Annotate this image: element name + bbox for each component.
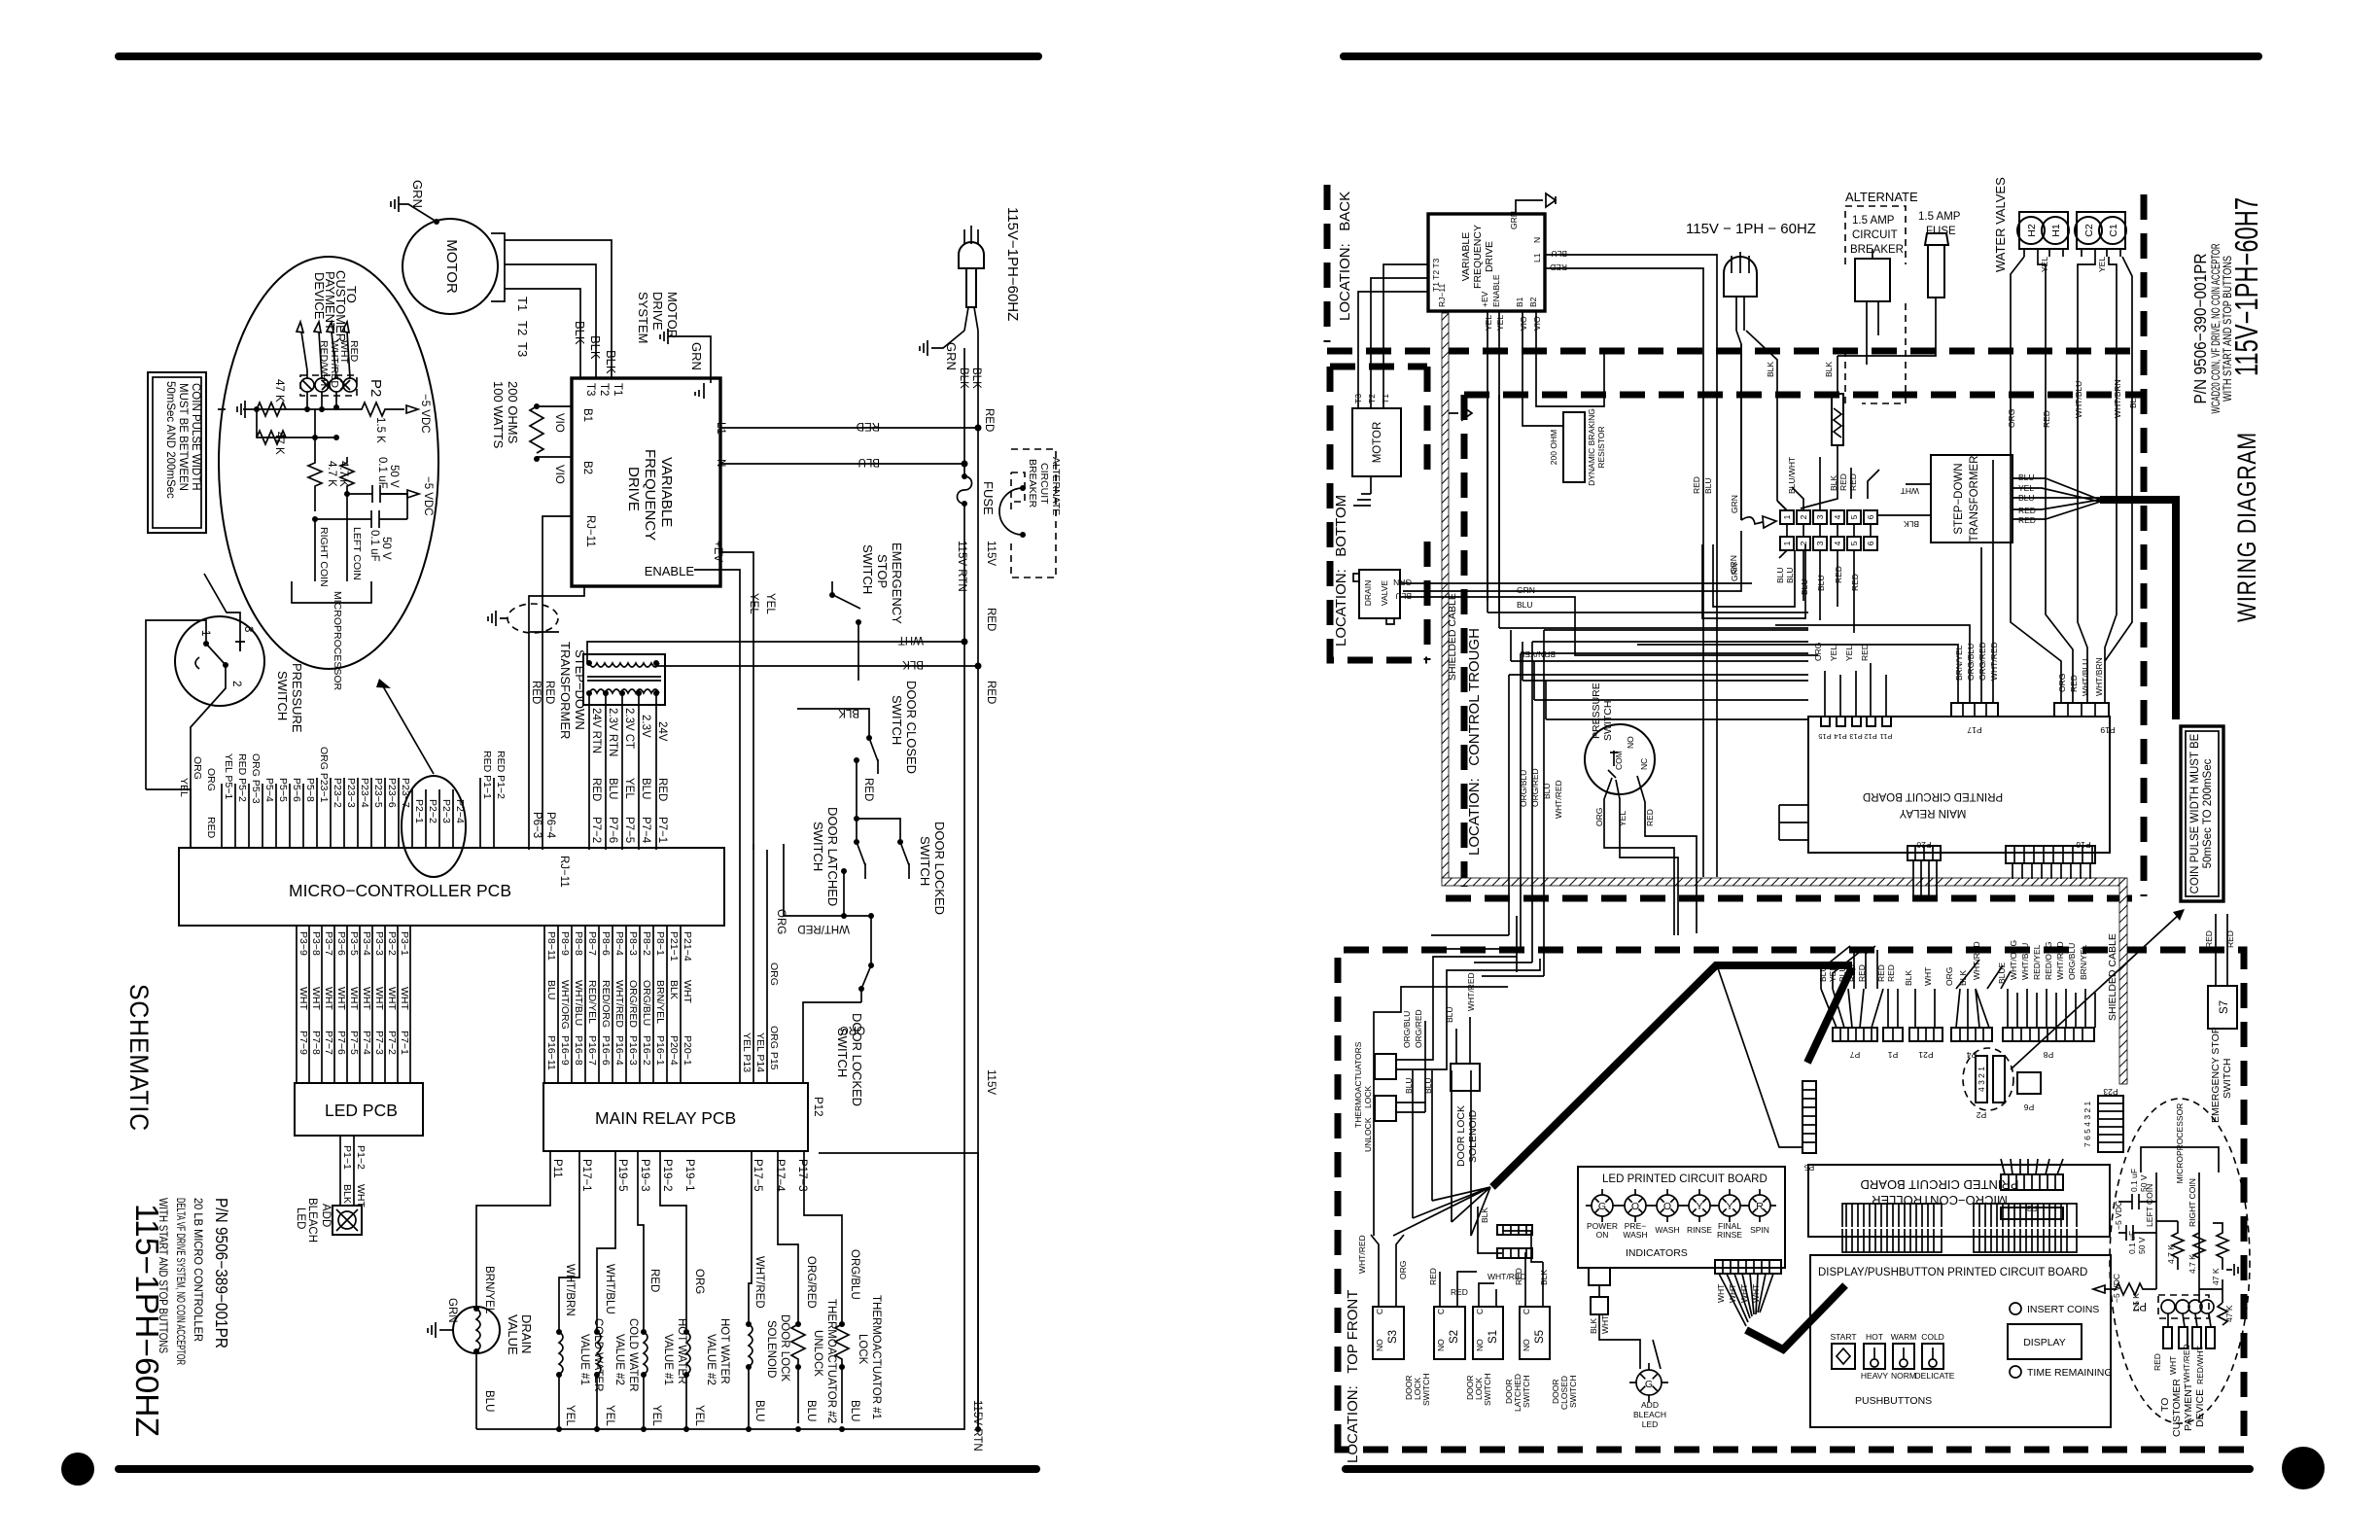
svg-text:RJ−11: RJ−11 [558, 856, 570, 888]
drain valve right page [1353, 570, 1400, 624]
svg-text:RED: RED [985, 608, 997, 631]
svg-text:P17−5: P17−5 [752, 1159, 763, 1192]
svg-text:HOT WATER: HOT WATER [718, 1318, 730, 1384]
svg-text:SCHEMATIC: SCHEMATIC [124, 984, 154, 1132]
svg-text:2.3V CT: 2.3V CT [623, 708, 635, 749]
svg-text:WHT/RED: WHT/RED [1972, 941, 1981, 980]
svg-text:BRN/YEL: BRN/YEL [1954, 645, 1964, 681]
svg-text:VIO: VIO [1532, 316, 1542, 331]
svg-text:TRANSFORMER: TRANSFORMER [558, 642, 573, 739]
svg-text:RED P1−2: RED P1−2 [495, 751, 507, 799]
svg-text:DEVICE: DEVICE [2194, 1389, 2206, 1427]
svg-text:ORG/RED: ORG/RED [627, 980, 639, 1028]
svg-text:LOCATION: BOTTOM: LOCATION: BOTTOM [1333, 495, 1349, 647]
svg-text:BLU: BLU [805, 1400, 817, 1421]
svg-text:P2−3: P2−3 [440, 799, 452, 823]
connector P20 [1907, 846, 1941, 860]
svg-text:BLK: BLK [970, 367, 982, 389]
wire bundle below micro-controller PCB to LED PCB [297, 926, 410, 1083]
svg-text:BREAKER: BREAKER [1027, 459, 1038, 508]
svg-text:RED: RED [1848, 473, 1858, 491]
svg-text:PRINTED CIRCUIT BOARD: PRINTED CIRCUIT BOARD [1863, 790, 2003, 802]
svg-text:ORG/BLU: ORG/BLU [2067, 943, 2077, 980]
svg-text:MUST BE BETWEEN: MUST BE BETWEEN [177, 383, 189, 491]
svg-text:WHT/BLU: WHT/BLU [2020, 943, 2030, 980]
wire 115V hot long vertical [977, 428, 979, 1429]
svg-text:T1: T1 [1381, 394, 1390, 403]
svg-text:SWITCH: SWITCH [275, 671, 290, 720]
svg-text:50 V: 50 V [2137, 1237, 2147, 1254]
svg-text:DEVICE: DEVICE [312, 272, 327, 320]
svg-text:4.7 K: 4.7 K [2187, 1254, 2197, 1274]
svg-text:P2: P2 [1977, 1110, 1987, 1120]
motor M [402, 219, 498, 314]
svg-text:HEAVY: HEAVY [1861, 1371, 1889, 1381]
wall back/bottom horizontal dashed [1327, 348, 2144, 355]
microprocessor bracket [292, 581, 371, 603]
svg-text:P8: P8 [2044, 1050, 2054, 1060]
svg-text:WHT/BLU: WHT/BLU [604, 1264, 615, 1314]
svg-text:YEL: YEL [604, 1405, 615, 1426]
svg-text:B2: B2 [1528, 297, 1538, 307]
svg-text:BLU: BLU [607, 778, 618, 799]
svg-text:RED: RED [2152, 1353, 2162, 1371]
svg-text:C: C [1436, 1309, 1446, 1314]
connector P8 [2003, 1028, 2094, 1041]
svg-text:BLK: BLK [1824, 362, 1834, 377]
connector row P7 P1 P21 P4 P8 [1818, 940, 2095, 1060]
svg-text:WHT/BLU: WHT/BLU [2074, 381, 2083, 418]
svg-text:HOT: HOT [1866, 1332, 1883, 1342]
svg-text:C2: C2 [2083, 224, 2095, 237]
svg-text:RED/WHT: RED/WHT [318, 340, 330, 389]
svg-text:RJ−11: RJ−11 [584, 515, 596, 547]
svg-text:RED: RED [857, 420, 880, 432]
svg-text:P23−5: P23−5 [372, 778, 384, 808]
svg-text:4: 4 [1833, 541, 1842, 545]
cable shield ground symbol [488, 604, 558, 633]
svg-text:RED: RED [1838, 473, 1848, 491]
svg-text:47 K: 47 K [273, 379, 285, 402]
wires +EV ENABLE down [1487, 311, 1499, 612]
LED add bleach [295, 1198, 362, 1242]
svg-text:WHT: WHT [898, 634, 924, 646]
svg-text:ORG/BLU: ORG/BLU [641, 980, 652, 1026]
svg-text:WHT/BLU: WHT/BLU [2081, 659, 2090, 696]
svg-text:50 V: 50 V [380, 537, 392, 560]
svg-text:DELICATE: DELICATE [1915, 1371, 1955, 1381]
dynamic braking resistor R2 [1549, 408, 1606, 486]
step-down transformer T2 right page [1876, 455, 2100, 542]
wire bundle below micro-controller PCB to main relay PCB [544, 926, 693, 1083]
svg-text:BLU: BLU [1423, 1077, 1433, 1094]
wire WHT to transformer [587, 642, 964, 663]
connector block rows 1-6 [1775, 457, 1879, 633]
door locked switch lower [775, 909, 874, 1106]
svg-text:BLU: BLU [1542, 783, 1552, 799]
svg-text:WHT: WHT [348, 987, 360, 1010]
svg-text:4.7 K: 4.7 K [326, 461, 337, 487]
svg-text:WIRING DIAGRAM: WIRING DIAGRAM [2232, 432, 2261, 622]
svg-text:STEP−DOWN: STEP−DOWN [573, 649, 587, 730]
svg-text:RED: RED [2018, 515, 2036, 525]
svg-text:RED: RED [205, 817, 217, 839]
location bottom dashed box [1330, 367, 1427, 660]
svg-text:P1−1: P1−1 [341, 1145, 353, 1170]
svg-text:TRANSFORMER: TRANSFORMER [1969, 456, 1980, 542]
svg-text:47 K: 47 K [273, 432, 285, 455]
wire N to VFD [720, 463, 964, 465]
svg-text:S3: S3 [1387, 1330, 1399, 1344]
svg-text:P8−7: P8−7 [586, 931, 598, 956]
svg-text:SWITCH: SWITCH [1483, 1373, 1492, 1406]
svg-text:WHT: WHT [335, 987, 347, 1010]
svg-text:RED: RED [985, 681, 997, 704]
svg-text:200 OHM: 200 OHM [1549, 430, 1558, 465]
svg-text:WHT: WHT [1728, 1284, 1737, 1303]
svg-text:YEL: YEL [178, 778, 190, 797]
svg-text:115V−1PH−60HZ: 115V−1PH−60HZ [1004, 207, 1021, 321]
svg-text:C: C [1475, 1309, 1485, 1314]
svg-text:115V − 1PH − 60HZ: 115V − 1PH − 60HZ [1686, 221, 1816, 237]
svg-text:115V RTN: 115V RTN [956, 541, 967, 592]
svg-text:RED: RED [1886, 964, 1896, 982]
svg-text:WHT/RED: WHT/RED [753, 1256, 765, 1309]
svg-text:BLK: BLK [604, 350, 618, 374]
svg-text:BLU: BLU [1517, 600, 1533, 610]
indicator lamp O pre-wash [1625, 1195, 1646, 1216]
svg-text:DOOR LOCKED: DOOR LOCKED [932, 822, 947, 915]
svg-text:BLK: BLK [838, 707, 859, 718]
svg-text:NC: NC [1639, 758, 1649, 770]
svg-text:5: 5 [1849, 541, 1859, 545]
svg-text:DOOR CLOSED: DOOR CLOSED [904, 681, 919, 774]
svg-text:T1: T1 [515, 297, 530, 311]
resistor 47K lower [257, 409, 286, 444]
svg-text:ADD: ADD [1641, 1400, 1659, 1410]
svg-text:FREQUENCY: FREQUENCY [642, 449, 658, 541]
svg-text:ORG: ORG [205, 768, 217, 791]
svg-text:P17: P17 [1967, 725, 1981, 735]
svg-text:BLU: BLU [1816, 575, 1826, 591]
control trough bottom dashed [1446, 895, 2144, 902]
svg-text:WASH: WASH [1655, 1225, 1679, 1235]
svg-text:DRIVE: DRIVE [1484, 241, 1495, 272]
motor terminal bracket [491, 233, 505, 301]
svg-text:3: 3 [242, 626, 254, 632]
svg-text:VALUE #1: VALUE #1 [662, 1334, 674, 1385]
hot water valve #2 coil [660, 1151, 730, 1429]
svg-text:SWITCH: SWITCH [1421, 1373, 1431, 1406]
wire BLK to transformer [656, 663, 978, 666]
svg-text:DRAIN: DRAIN [519, 1314, 534, 1353]
svg-text:P8−9: P8−9 [559, 931, 571, 956]
svg-text:P5−8: P5−8 [304, 778, 316, 802]
svg-text:DISPLAY: DISPLAY [2023, 1337, 2066, 1348]
svg-text:C: C [1375, 1309, 1384, 1314]
svg-text:SWITCH: SWITCH [1522, 1375, 1531, 1408]
micro-controller printed circuit board right page [1808, 1159, 2110, 1237]
connector P1 [1883, 1028, 1903, 1041]
svg-text:P20−1: P20−1 [682, 1035, 693, 1066]
leader arrow from ellipse to P2 oval [383, 686, 434, 774]
svg-text:COIN PULSE WIDTH: COIN PULSE WIDTH [190, 383, 201, 491]
svg-text:BREAKER: BREAKER [1850, 244, 1904, 256]
door latched switch [811, 807, 865, 916]
door closed switch [797, 681, 919, 819]
svg-text:WATER VALVES: WATER VALVES [1993, 177, 2008, 272]
svg-text:24V RTN: 24V RTN [590, 708, 602, 753]
cold water valve #1 coil [556, 1151, 604, 1429]
svg-text:RED: RED [648, 1269, 660, 1292]
svg-text:LED: LED [295, 1207, 306, 1229]
transformer secondary fan to heavy wire [2012, 478, 2100, 519]
water valve wires down [2007, 257, 2138, 703]
svg-text:L1: L1 [1532, 253, 1542, 262]
svg-text:2: 2 [1799, 514, 1808, 519]
heavy harness diagonal in top front box [1492, 965, 1852, 1187]
svg-text:P7−1: P7−1 [399, 1031, 410, 1055]
svg-text:DOOR LOCK: DOOR LOCK [1455, 1105, 1467, 1167]
heavy harness wire from transformer [2100, 500, 2176, 719]
svg-text:P3−5: P3−5 [348, 931, 360, 956]
transformer T1 step-down [558, 642, 665, 739]
svg-text:ORG P15: ORG P15 [768, 1026, 780, 1070]
LED PCB bottom connectors [1589, 1260, 1781, 1314]
svg-text:BLK: BLK [1766, 362, 1775, 377]
svg-text:WHT/BRN: WHT/BRN [564, 1264, 576, 1316]
svg-text:BRN/YEL: BRN/YEL [654, 980, 666, 1024]
svg-text:P12: P12 [1864, 732, 1876, 741]
pressure switch PS1 [175, 616, 304, 733]
svg-text:WHT: WHT [1739, 1284, 1749, 1303]
svg-text:RED: RED [1692, 476, 1701, 494]
svg-text:TO: TO [2159, 1398, 2171, 1412]
svg-text:RED: RED [2018, 506, 2036, 515]
display/pushbutton printed circuit board [1810, 1255, 2113, 1427]
svg-text:RED: RED [2042, 410, 2051, 428]
svg-text:BLK: BLK [1904, 970, 1913, 986]
svg-text:CIRCUIT: CIRCUIT [1038, 463, 1050, 505]
wire hot BLK down from plug [977, 331, 979, 428]
svg-text:RED: RED [1860, 644, 1870, 661]
fuse 1.5A right page [1837, 211, 1961, 356]
svg-text:6: 6 [1866, 541, 1875, 545]
svg-text:BLU: BLU [1395, 591, 1412, 601]
svg-text:BRN/YEL: BRN/YEL [2079, 944, 2088, 980]
svg-text:GRN: GRN [1517, 585, 1535, 595]
svg-text:BLK: BLK [958, 367, 969, 389]
svg-text:VIO: VIO [553, 413, 565, 433]
svg-text:N: N [1532, 237, 1542, 243]
svg-text:50 V: 50 V [2139, 1174, 2149, 1192]
svg-text:BLU: BLU [753, 1400, 765, 1421]
svg-text:T3: T3 [584, 383, 596, 396]
svg-text:P7−7: P7−7 [323, 1031, 334, 1055]
svg-text:SHIELDED CABLE: SHIELDED CABLE [2107, 933, 2118, 1021]
svg-text:RED: RED [1850, 574, 1860, 591]
svg-text:INSERT COINS: INSERT COINS [2027, 1304, 2099, 1315]
svg-text:P1−2: P1−2 [355, 1145, 367, 1170]
svg-text:S2: S2 [1449, 1330, 1460, 1344]
svg-text:ORG: ORG [1594, 808, 1604, 826]
svg-text:WHT/RED: WHT/RED [797, 923, 850, 934]
svg-text:BLK: BLK [573, 321, 587, 345]
add bleach LED right page [1589, 1314, 1668, 1429]
svg-text:P2: P2 [367, 379, 384, 397]
svg-text:BLU: BLU [545, 980, 557, 999]
main relay PCB board [543, 1083, 823, 1192]
wires LED PCB to add bleach LED [340, 1136, 354, 1206]
wires pressure switch to PCB [146, 574, 240, 848]
svg-text:SWITCH: SWITCH [1602, 701, 1614, 741]
svg-text:NO: NO [1436, 1339, 1446, 1351]
svg-text:47 K: 47 K [2211, 1268, 2221, 1285]
svg-text:WHT/RED: WHT/RED [1466, 972, 1476, 1011]
svg-text:YEL: YEL [1618, 811, 1627, 826]
svg-text:YEL: YEL [1829, 646, 1838, 661]
svg-text:BLK: BLK [341, 1184, 353, 1204]
time remaining lamp [2010, 1366, 2021, 1378]
coin pulse width note box right page [2181, 726, 2223, 901]
svg-text:S1: S1 [1487, 1330, 1499, 1344]
svg-text:DYNAMIC BRAKING: DYNAMIC BRAKING [1587, 408, 1596, 486]
svg-text:ORG/RED: ORG/RED [1977, 642, 1987, 681]
svg-text:2: 2 [230, 681, 242, 686]
svg-text:RED/ORG: RED/ORG [600, 980, 612, 1028]
svg-text:SWITCH: SWITCH [890, 695, 904, 745]
svg-text:P7−5: P7−5 [623, 817, 635, 843]
svg-text:BLEACH: BLEACH [1633, 1410, 1666, 1419]
plug wires down [1736, 331, 1777, 520]
115V RTN return bus [476, 642, 997, 1452]
svg-text:P3−8: P3−8 [310, 931, 322, 956]
svg-text:UNLOCK: UNLOCK [1363, 1117, 1373, 1152]
svg-text:−5 VDC: −5 VDC [419, 394, 431, 434]
svg-text:G: G [1598, 1201, 1606, 1212]
door locked switch upper [857, 819, 947, 915]
wire BLK breaker leg down to connector [1777, 445, 1837, 510]
wires P13 P14 P15 into main relay PCB [740, 844, 780, 1083]
svg-text:BLU: BLU [2018, 472, 2035, 482]
svg-text:P2: P2 [2133, 1300, 2147, 1312]
svg-text:WHT: WHT [310, 987, 322, 1010]
connector P17 top [1951, 703, 1998, 717]
svg-text:115V: 115V [985, 1069, 997, 1095]
svg-text:ORG P5−3: ORG P5−3 [250, 753, 262, 804]
svg-text:ORG: ORG [840, 1024, 865, 1035]
svg-text:STOP: STOP [875, 554, 890, 588]
wire drops into top front box [1509, 630, 1544, 976]
connector P7 [1833, 1028, 1877, 1041]
svg-text:P7−4: P7−4 [640, 817, 651, 844]
svg-text:MOTOR: MOTOR [1372, 422, 1383, 464]
svg-text:NORM: NORM [1891, 1371, 1916, 1381]
svg-text:YEL P5−1: YEL P5−1 [223, 753, 234, 799]
svg-text:BLU: BLU [483, 1390, 495, 1412]
svg-text:SYSTEM: SYSTEM [636, 292, 650, 343]
connector P5 [1717, 965, 1852, 1172]
svg-text:7 6 5 4 3 2 1: 7 6 5 4 3 2 1 [2082, 1101, 2092, 1147]
svg-text:B2: B2 [581, 461, 593, 474]
fuse F1 [958, 464, 997, 529]
svg-text:RED P1−1: RED P1−1 [481, 751, 493, 799]
svg-text:BLU: BLU [2018, 493, 2035, 503]
svg-text:P21: P21 [1918, 1050, 1933, 1060]
svg-text:COLD WATER: COLD WATER [627, 1318, 639, 1391]
GRN wire from plug to connector [1403, 344, 1776, 591]
svg-text:PAYMENT: PAYMENT [2183, 1382, 2194, 1431]
svg-text:RED: RED [530, 681, 542, 704]
microprocessor block [2141, 1147, 2219, 1172]
wire motor T3 [505, 289, 580, 378]
svg-text:MAIN RELAY: MAIN RELAY [1899, 807, 1966, 819]
wires VFD T1 T2 T3 to motor [1358, 264, 1428, 408]
svg-text:YEL: YEL [2097, 257, 2107, 272]
node WHT/RED bus [784, 915, 871, 917]
svg-text:BLEACH: BLEACH [306, 1198, 318, 1242]
svg-text:PRESSURE: PRESSURE [1591, 682, 1602, 739]
svg-text:50mSec TO 200mSec: 50mSec TO 200mSec [2202, 758, 2214, 868]
svg-text:SWITCH: SWITCH [811, 822, 825, 871]
connector P4 [1951, 1028, 1992, 1041]
svg-text:P3−6: P3−6 [335, 931, 347, 956]
motor M right page [1352, 408, 1401, 506]
svg-text:SWITCH: SWITCH [1568, 1375, 1578, 1408]
svg-text:WHT/ORG: WHT/ORG [559, 980, 571, 1030]
variable frequency drive U3 (right page) [1428, 211, 1545, 311]
customer payment device ellipse right page [2093, 1099, 2250, 1437]
wire fan from LED PCB connector [1716, 1274, 1845, 1349]
svg-text:SOLENOID: SOLENOID [765, 1320, 777, 1378]
svg-text:P8−1: P8−1 [654, 931, 666, 956]
svg-text:T2: T2 [1367, 394, 1377, 403]
svg-text:P6−3: P6−3 [531, 812, 542, 838]
connectors P15..P11 [1821, 717, 1830, 726]
svg-text:P16: P16 [2076, 840, 2090, 850]
ground inside VFD top right [695, 387, 704, 399]
wire 115V RTN below fuse [963, 529, 965, 642]
svg-text:ALTERNATE: ALTERNATE [1050, 457, 1062, 515]
svg-text:WHT: WHT [1600, 1315, 1610, 1334]
svg-text:ORG/RED: ORG/RED [1414, 1009, 1423, 1048]
wire VFD ground to GRN [668, 336, 711, 383]
svg-text:P20: P20 [1916, 840, 1931, 850]
customer payment device ellipse [218, 257, 438, 691]
door switch S1 [1473, 1272, 1531, 1412]
svg-text:RED/YEL: RED/YEL [2032, 944, 2042, 980]
svg-text:LED PRINTED CIRCUIT BOARD: LED PRINTED CIRCUIT BOARD [1602, 1173, 1767, 1185]
svg-text:PRINTED CIRCUIT BOARD: PRINTED CIRCUIT BOARD [1861, 1177, 2019, 1192]
svg-text:BLK: BLK [588, 335, 603, 360]
svg-text:T1: T1 [612, 383, 623, 396]
svg-text:4 3 2 1: 4 3 2 1 [1977, 1067, 1986, 1092]
svg-text:BLU: BLU [1775, 567, 1785, 583]
svg-text:COLD: COLD [1921, 1332, 1944, 1342]
svg-text:1.5 K: 1.5 K [374, 417, 386, 443]
svg-text:VIO: VIO [553, 465, 565, 484]
svg-text:P3−2: P3−2 [386, 931, 398, 956]
svg-text:RIGHT COIN: RIGHT COIN [318, 527, 330, 587]
svg-text:P16−11: P16−11 [545, 1035, 557, 1070]
svg-text:RED P5−2: RED P5−2 [236, 753, 248, 802]
leader arrow from P2 to coin pulse note [2011, 914, 2180, 1069]
svg-text:P7−2: P7−2 [590, 817, 602, 843]
svg-text:WHT: WHT [1923, 967, 1933, 986]
svg-text:BLU: BLU [1800, 578, 1809, 595]
svg-text:WCAD20 COIN, VF DRIVE, NO COIN: WCAD20 COIN, VF DRIVE, NO COIN ACCEPTOR [2211, 244, 2222, 414]
ground at motor [391, 180, 439, 225]
